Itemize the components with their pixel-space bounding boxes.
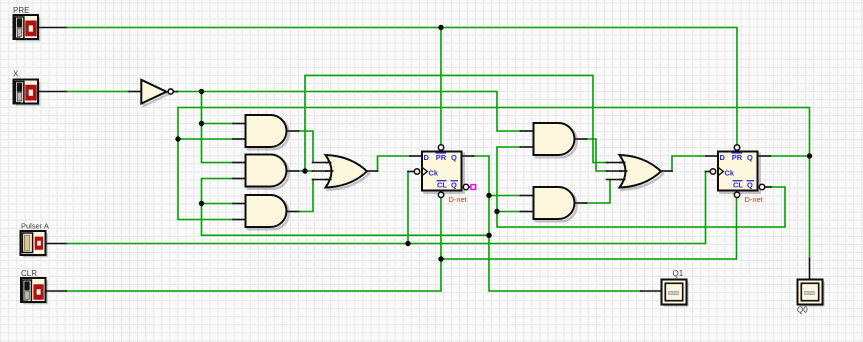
node X-bar to AND1 upper [199,121,204,126]
node Q1 to AND3 upper [199,201,204,206]
wire NOT gate input pin [129,91,141,93]
wire OR1 output pin [367,170,378,172]
svg-text:Ck: Ck [429,168,439,177]
node Q1 to AND5 upper [486,193,491,198]
wire AND1 input pins [233,123,246,125]
logic toggle CLR [21,278,48,304]
wire DFF2 Q to Q0 column [770,155,810,157]
wire Q1 probe pin [641,290,662,292]
wire AND4 input pins [521,130,534,132]
wire Pulser A clock line [66,172,706,244]
node X-bar junction at NOT output [199,89,204,94]
and gate G2 [246,155,287,187]
svg-text:Q0: Q0 [797,306,808,315]
wire Q1 branch to AND3 upper [202,203,234,205]
wire X switch pin [38,91,66,93]
wire DFF2 Ck pin [706,171,711,173]
svg-text:D-net: D-net [449,195,468,204]
wire DFF2 Q pin [758,155,771,157]
wire OR2 output to DFF2 D [672,156,706,171]
svg-text:Q: Q [747,181,753,190]
d flip-flop U2 [710,145,764,198]
logic toggle X [14,80,41,106]
and gate G5 [534,187,575,219]
wire AND1 output to OR1 top input [299,131,314,163]
wire X switch to NOT gate [66,91,129,93]
wire AND4 output to OR2 mid input [587,139,608,171]
wire X-bar branch to AND1 upper [202,123,234,125]
wire AND2 output to OR1 mid and long loop to OR2 top [299,170,313,172]
wire CLR switch pin [46,290,67,292]
svg-text:D: D [424,153,430,162]
svg-text:X: X [13,69,19,78]
wire CLR branch to DFF2 CL [441,198,737,260]
and gate G3 [246,195,287,227]
logic probe Q1 [662,280,689,307]
svg-text:Pulser A: Pulser A [21,221,49,230]
node PRE/PR1 junction [438,25,443,30]
node AND2 output junction [302,168,307,173]
wire PRE net branch to DFF1 PR [440,28,442,145]
wire CLR net to DFF1 CL [66,198,441,292]
svg-text:CL: CL [733,180,743,189]
wire OR1 input pins [313,162,328,164]
d flip-flop U1 [414,145,468,198]
wire DFF2 Q-bar pin [766,186,772,188]
wire PRE switch pin [38,27,66,29]
wire OR1 output to DFF1 D [378,156,411,171]
wire AND3 output to OR1 bottom input [299,180,314,212]
wire OR1 input stub overlays [325,163,334,180]
or gate G6 [326,155,367,188]
wire NOT output net (X-bar) to AND4 upper [177,92,521,132]
wire OR2 input pins [607,162,622,164]
wire OR2 output pin [661,170,673,172]
wire DFF2 Q-bar loop to AND4 lower [497,147,785,227]
pulse button Pulser A [21,231,48,257]
svg-text:D-net: D-net [745,195,764,204]
wire AND5 output to OR2 bottom input [587,180,611,204]
node Q0 to AND1 lower [175,136,180,141]
wire X-bar branch down to AND2 upper [202,92,234,163]
svg-text:PR: PR [436,153,447,162]
wire Q0 feedback net (top long run) [178,108,810,259]
wire AND2 output loop over top to OR2 [305,75,607,171]
wire AND5 input pins [521,195,534,197]
svg-text:CLR: CLR [21,269,37,278]
node CLR junction [438,256,443,261]
wire PRE net horizontal to DFF2 PR [66,28,737,145]
and gate G1 [246,115,287,147]
wire DFF1 Ck pin [408,171,414,173]
logic toggle PRE [14,15,41,41]
node DFF2 Q / Q0 junction [807,153,812,158]
wire Q1 branch left to AND2 lower [202,179,490,236]
node Q1 branch junction [486,233,491,238]
node Q-bar2 to AND5 lower [494,209,499,214]
svg-text:Q: Q [451,181,457,190]
wire DFF1 Q net vertical column [473,156,641,291]
wire AND1 output pin [287,130,299,132]
svg-text:Q1: Q1 [673,269,684,278]
wire Q0 branch to AND1 lower [178,138,233,140]
wire Pulser A pin [46,243,67,245]
wire Q-bar branch to AND5 lower [497,211,521,213]
and gate G4 [534,123,575,155]
svg-text:PRE: PRE [13,6,29,15]
wire AND5 output pin [575,202,587,204]
wire OR2 input stub overlays [619,163,628,180]
node clock to DFF1 Ck [405,241,410,246]
svg-text:D: D [720,153,726,162]
wire AND4 output pin [575,138,587,140]
wire AND2 output pin [287,170,299,172]
svg-text:Q: Q [451,153,457,162]
or gate G7 [620,155,661,188]
wire Q0 probe pin [809,259,811,280]
wire DFF2 D pin [706,155,718,157]
wire AND2 input pins [233,162,246,164]
wire AND3 input pins [233,203,246,205]
logic probe Q0 [798,280,825,307]
wire clock branch to DFF1 Ck [407,172,409,244]
svg-text:Q: Q [747,153,753,162]
svg-text:Ck: Ck [725,168,735,177]
wire DFF1 D pin [410,155,422,157]
svg-text:PR: PR [732,153,743,162]
svg-text:CL: CL [437,180,447,189]
wire DFF1 Q pin [461,155,474,157]
wire Q1 branch to AND5 upper [489,195,521,197]
wire AND3 output pin [287,211,299,213]
inverter U-NOT [141,80,173,104]
node floating marker at U1 Q-bar [469,185,476,190]
